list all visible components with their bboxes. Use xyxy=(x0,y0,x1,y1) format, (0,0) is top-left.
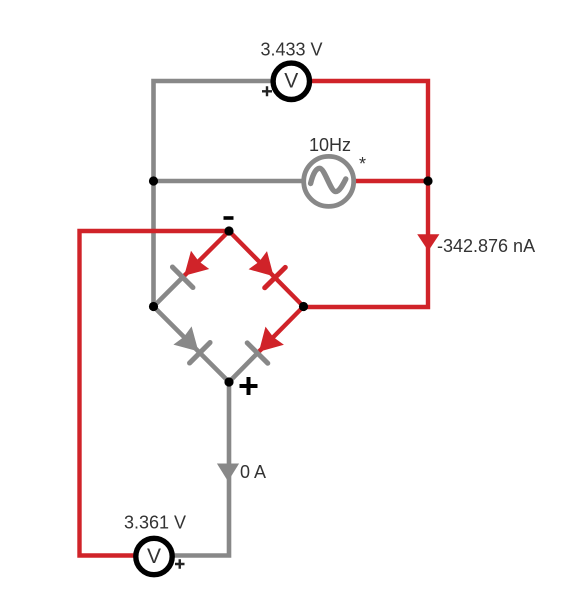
junction node on right rail at AC tap xyxy=(423,176,432,185)
AC source phase dot asterisk xyxy=(359,154,366,174)
svg-text:V: V xyxy=(284,70,298,93)
wire gray bottom run: V2 right terminal to bridge bottom node xyxy=(175,382,230,556)
plus polarity label at bridge bottom node xyxy=(240,377,258,395)
current label 0 A xyxy=(240,462,266,482)
AC source circle xyxy=(304,156,354,206)
voltmeter V1 plus polarity mark xyxy=(262,86,272,96)
wire red top-right run: V1 right across and down right rail to bridge right node xyxy=(304,81,428,307)
wire red left loop: bridge top node across and down to V2 left terminal xyxy=(80,231,230,556)
voltmeter V2 plus polarity mark xyxy=(175,559,185,569)
wire red from AC source right terminal to right rail xyxy=(356,179,428,183)
bridge bottom node xyxy=(224,377,233,386)
svg-text:10Hz: 10Hz xyxy=(309,135,351,155)
voltmeter V1 (top) xyxy=(273,63,309,99)
junction node on left rail at AC tap xyxy=(149,176,158,185)
diode D3 bottom-left edge (all gray) xyxy=(154,307,230,383)
AC source frequency label 10Hz xyxy=(309,135,351,155)
current arrow red on right rail xyxy=(417,234,439,251)
voltmeter V2 reading 3.361 V xyxy=(124,513,186,533)
wire gray from left rail to AC source left terminal xyxy=(154,179,303,184)
current label -342.876 nA xyxy=(437,236,535,256)
minus polarity label at bridge top node xyxy=(224,216,234,220)
diode D2 top-right edge (all red) xyxy=(229,231,304,307)
diode D1 top-left edge (anode red from top node, gray cathode bar) xyxy=(154,231,230,307)
svg-text:3.433 V: 3.433 V xyxy=(260,39,322,59)
svg-text:3.361 V: 3.361 V xyxy=(124,513,186,533)
bridge right node xyxy=(299,302,308,311)
bridge left node xyxy=(149,302,158,311)
voltmeter V1 reading 3.433 V xyxy=(260,39,322,59)
wire gray top-left run: V1 left to left rail down to bridge left node xyxy=(154,81,271,307)
bridge top node xyxy=(224,226,233,235)
voltmeter V2 (bottom) xyxy=(136,538,172,574)
svg-text:0 A: 0 A xyxy=(240,462,266,482)
svg-text:-342.876 nA: -342.876 nA xyxy=(437,236,535,256)
current arrow gray on bottom branch xyxy=(217,464,239,482)
svg-text:V: V xyxy=(147,545,161,568)
diode D4 bottom-right edge (red anode from right node, gray cathode) xyxy=(229,307,304,383)
svg-text:*: * xyxy=(359,154,366,174)
